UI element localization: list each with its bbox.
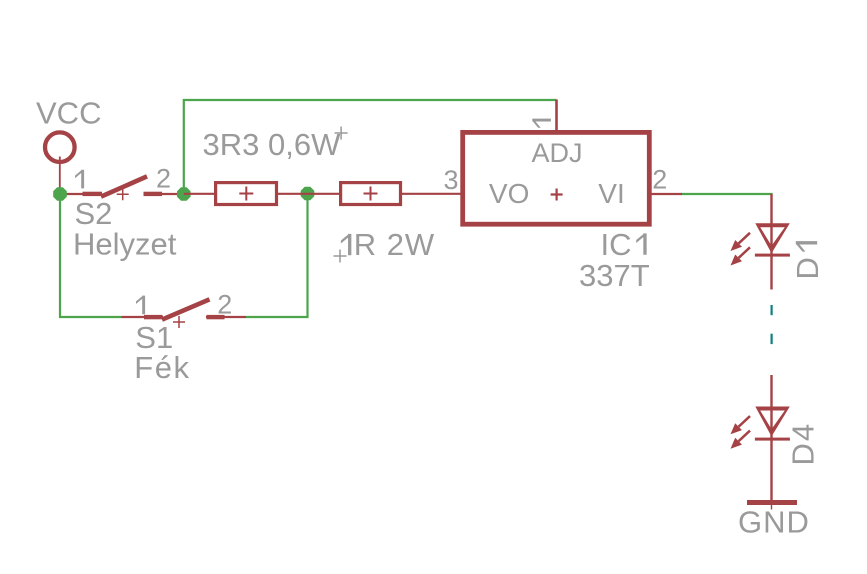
IC1 pin 2 wire (right) — [652, 193, 683, 195]
svg-text:Helyzet: Helyzet — [73, 227, 177, 262]
pin label 1 of IC1 (rotated) — [532, 119, 551, 128]
svg-text:2: 2 — [652, 165, 667, 195]
node C (junction) — [301, 187, 315, 201]
svg-text:Fék: Fék — [134, 350, 190, 385]
switch S2 — [60, 176, 184, 200]
switch S1 — [122, 299, 247, 328]
origin cross of R1 value text — [335, 127, 348, 140]
power symbol VCC — [45, 132, 75, 162]
wire node B to resistor R1 and rail to IC pin 3 — [184, 193, 461, 195]
svg-text:ADJ: ADJ — [532, 138, 583, 168]
wire IC pin 2 to LED D1 (green) — [681, 193, 773, 195]
pin label 1 of S2 — [75, 170, 84, 189]
resistor R2 — [341, 183, 401, 205]
svg-text:3R3 0,6W: 3R3 0,6W — [203, 127, 342, 162]
svg-text:D: D — [790, 257, 825, 279]
svg-text:VO: VO — [489, 178, 529, 209]
svg-text:VCC: VCC — [36, 96, 101, 131]
svg-text:2: 2 — [156, 164, 171, 194]
node A (junction) — [53, 187, 67, 201]
LED D4 — [731, 375, 790, 502]
svg-text:3: 3 — [444, 165, 459, 195]
node B (junction) — [177, 187, 191, 201]
wire node C down to S1 rail (right vertical green) — [246, 194, 308, 317]
IC1 pin 1 wire (ADJ, top) — [555, 100, 558, 132]
wire node B up and across to IC pin 1 (top green) — [184, 100, 557, 194]
resistor R1 — [216, 183, 277, 205]
svg-text:337T: 337T — [579, 258, 650, 293]
svg-text:IC: IC — [601, 227, 632, 262]
svg-text:VI: VI — [598, 178, 624, 209]
ground symbol GND — [747, 500, 797, 510]
wire node A to S1 rail (left vertical green) — [60, 194, 122, 317]
svg-text:GND: GND — [738, 505, 810, 540]
net continuation dashes — [771, 305, 773, 315]
origin cross of R2 value text — [334, 250, 347, 263]
wire VCC pin to node A — [59, 157, 61, 195]
regulator IC1 (337T) box — [463, 132, 650, 224]
svg-text:D4: D4 — [786, 422, 821, 466]
LED D1 — [731, 194, 790, 290]
svg-text:2: 2 — [217, 290, 232, 320]
svg-text:R 2W: R 2W — [354, 227, 436, 262]
pin label 1 of S1 — [136, 296, 145, 315]
